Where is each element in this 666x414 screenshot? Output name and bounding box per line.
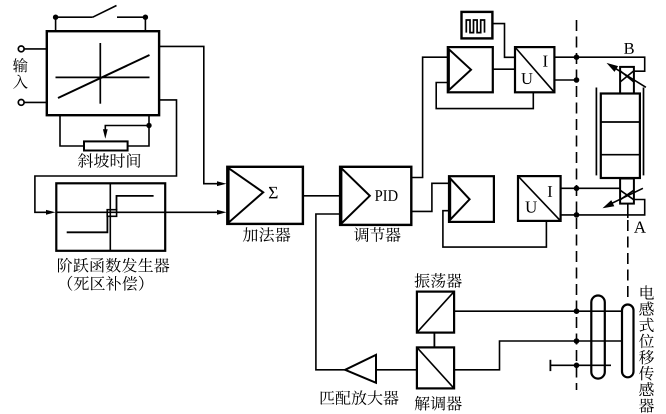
U/I 2 letters: [525, 186, 552, 213]
wire ramp to adder: [159, 46, 217, 183]
throttle valve B body: [620, 67, 634, 94]
U/I 1 feedback loop: [436, 83, 533, 109]
lower amplifier box: [449, 176, 494, 222]
label adder: [243, 227, 291, 242]
adder triangle: [229, 168, 264, 222]
step function generator box: [56, 183, 165, 251]
oscillator diagonal: [417, 292, 454, 333]
step curve: [67, 216, 108, 232]
sensor common wire with tick: [550, 364, 611, 366]
PID label: [375, 190, 397, 201]
bypass switch: [56, 6, 146, 32]
node dot A1: [574, 186, 580, 192]
node dot A2: [574, 212, 580, 218]
ramp generator box: [47, 31, 159, 115]
sensor coil primary: [591, 296, 605, 379]
throttle valve A body: [620, 179, 634, 204]
throttle valve A cross: [620, 190, 634, 200]
label inductive displacement sensor: [639, 285, 654, 412]
U/I 2 diagonal: [518, 176, 561, 221]
pot right wire: [128, 115, 149, 147]
node dot B2: [574, 77, 580, 83]
pulse generator box: [462, 12, 493, 39]
wire U/I-1 out upper to valve B: [554, 57, 644, 71]
demodulator box: [417, 347, 454, 388]
PID regulator box: [340, 167, 411, 225]
demodulator diagonal: [417, 347, 454, 388]
label matching amplifier: [320, 390, 398, 405]
cylinder internal lines: [601, 122, 640, 155]
cylinder body: [601, 94, 640, 179]
valve A lower stub: [627, 204, 629, 218]
node dot osc: [574, 308, 580, 314]
label dead zone compensation: [68, 276, 144, 291]
U/I converter 1 box: [515, 47, 554, 92]
input terminals: [24, 49, 47, 103]
wire matching-amp feedback to PID: [316, 214, 345, 370]
dashed boundary line left: [576, 20, 578, 390]
wire demodulator to matching amp: [376, 369, 417, 371]
wire PID to upper amp: [411, 57, 448, 177]
PID triangle: [341, 168, 369, 223]
throttle valve B adjust arrow: [613, 67, 646, 87]
matching amplifier triangle: [345, 355, 376, 383]
upper amplifier box: [448, 47, 493, 92]
wire U/I-1 out lower: [554, 79, 576, 81]
osc-demod connector: [433, 333, 435, 348]
label shuru (input): [13, 58, 28, 89]
cylinder side rails: [596, 88, 643, 176]
lower amp feedback loop: [443, 211, 547, 247]
wire U/I-2 out upper to valve A: [561, 187, 621, 189]
label ramp time: [78, 153, 140, 168]
ramp interior axes: [56, 43, 150, 104]
throttle valve B cross: [620, 71, 634, 82]
lower amplifier triangle: [450, 178, 469, 219]
label oscillator: [415, 273, 462, 288]
U/I 1 diagonal: [515, 47, 554, 92]
wire ramp to step-gen: [35, 100, 177, 212]
wire step-gen to adder: [56, 211, 217, 213]
label step function generator: [58, 258, 169, 273]
sensor coil secondary: [622, 305, 634, 378]
step-gen axis: [109, 183, 111, 251]
wire PID to lower amp: [411, 183, 449, 211]
pot wiper arrow: [105, 126, 149, 132]
label B: [624, 43, 634, 54]
ramp-time potentiometer: [84, 141, 128, 150]
adder sigma label: [269, 187, 278, 198]
wire upper amp to U/I-1: [493, 68, 515, 70]
dead-zone square: [107, 210, 116, 217]
wire demodulator to sensor: [454, 341, 622, 370]
dashed boundary line right: [627, 220, 629, 302]
oscillator box: [417, 292, 454, 333]
label demodulator: [415, 396, 462, 411]
U/I 1 letters: [521, 56, 547, 85]
label regulator: [354, 227, 401, 242]
adder box: [227, 167, 303, 224]
throttle valve A adjust arrow: [610, 188, 643, 204]
node dot common: [574, 363, 580, 369]
U/I converter 2 box: [518, 176, 561, 221]
upper amplifier triangle: [449, 49, 471, 90]
pulse waveform icon: [466, 20, 484, 33]
wire U/I-2 out lower to valve A: [561, 200, 645, 215]
pot left wire: [60, 115, 84, 147]
node dot demod: [574, 338, 580, 344]
wire pulse to U/I-1: [492, 24, 515, 58]
junction dot pot: [146, 123, 151, 128]
label A: [634, 221, 646, 232]
wire oscillator to sensor: [454, 310, 622, 312]
node dot B1: [574, 54, 580, 60]
wire adder to PID: [303, 195, 340, 197]
